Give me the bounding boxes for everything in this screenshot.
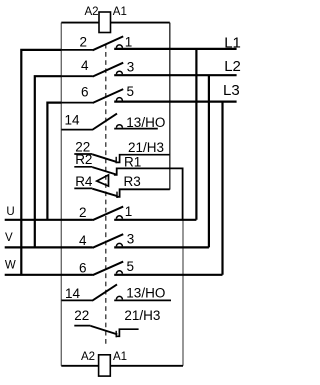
svg-text:2: 2 (80, 34, 88, 49)
fixed contact (116, 243, 122, 246)
moving contact blade (93, 36, 124, 50)
fixed contact (116, 271, 122, 274)
left terminal wire (61, 49, 92, 51)
svg-text:21/Н3: 21/Н3 (124, 308, 160, 323)
left terminal wire (61, 299, 92, 301)
contact row 4-3 (KM2 main pole 2) (93, 234, 209, 248)
wire: L1 drop to KM2 terminal 1 (195, 49, 197, 220)
right terminal wire (114, 74, 236, 76)
right terminal wire (114, 274, 222, 276)
svg-text:A2: A2 (85, 6, 99, 18)
fixed contact (116, 98, 122, 101)
wire to coil terminal A1 (111, 22, 170, 24)
contact stop bar (115, 331, 117, 338)
mechanical linkage dashed line (105, 44, 107, 345)
coil KM2 (bottom) (61, 355, 183, 376)
contact stop bar (115, 157, 117, 164)
aux NC contact 22-21/H3 (KM1) (74, 154, 170, 163)
svg-text:6: 6 (79, 260, 87, 275)
moving contact blade (93, 234, 124, 248)
wire: L3 drop to KM2 terminal 5 (221, 102, 223, 275)
mechanical interlock triangle (97, 175, 109, 186)
left terminal wire (61, 129, 92, 131)
right terminal hook wire (117, 155, 170, 163)
fixed contact (116, 296, 122, 299)
moving contact blade (92, 167, 116, 174)
contact row 2-1 (KM1 main pole 1) (61, 36, 236, 50)
wire: KM1 terminal 6 out to U feed (47, 103, 61, 220)
aux contact 14-13/NO (KM2) (61, 284, 171, 300)
wire to coil terminal A1 (KM2) (110, 365, 183, 367)
contact row 4-3 (KM1 main pole 2) (61, 63, 236, 77)
svg-text:R2: R2 (75, 152, 92, 167)
moving contact blade (92, 284, 117, 300)
svg-text:V: V (5, 232, 13, 244)
left terminal wire (61, 102, 92, 104)
left terminal wire stub (74, 187, 92, 189)
wire: KM1 terminal 2 out to W feed (21, 50, 61, 275)
fixed contact (116, 45, 122, 48)
right terminal wire (114, 128, 158, 130)
coil KM1 body (99, 12, 111, 33)
moving contact blade (92, 114, 117, 130)
contactor KM2 outline right edge (182, 220, 184, 365)
moving contact blade (93, 262, 124, 276)
right terminal wire (114, 219, 196, 221)
left terminal wire stub (74, 166, 92, 168)
svg-text:3: 3 (127, 232, 135, 247)
svg-text:4: 4 (79, 233, 87, 248)
svg-text:1: 1 (125, 204, 133, 219)
aux NC contact 22-21/H3 (KM2) (74, 326, 138, 338)
fixed contact (116, 125, 122, 128)
svg-text:R1: R1 (124, 154, 141, 169)
moving contact blade (93, 89, 124, 103)
svg-text:3: 3 (127, 60, 135, 75)
svg-text:L3: L3 (223, 82, 240, 99)
right terminal wire (114, 48, 236, 50)
svg-text:W: W (5, 260, 16, 272)
svg-text:A1: A1 (113, 351, 127, 363)
contact row 6-5 (KM1 main pole 3) (61, 89, 236, 103)
moving contact blade (91, 326, 118, 335)
wire: L2 drop to KM2 terminal 3 (208, 75, 210, 247)
right terminal hook wire (116, 329, 138, 336)
fixed contact (116, 216, 122, 219)
interlock contact R4-R3 (74, 188, 170, 198)
contactor KM1 outline right edge (169, 23, 171, 190)
wire to coil terminal A2 (KM2) (61, 365, 98, 367)
coil KM1 (top) (61, 12, 170, 33)
svg-text:14: 14 (65, 113, 81, 128)
svg-text:A1: A1 (113, 6, 127, 18)
svg-text:13/НО: 13/НО (126, 286, 165, 301)
right terminal hook wire (114, 168, 183, 219)
right terminal wire (114, 100, 236, 102)
right terminal wire (114, 246, 209, 248)
svg-text:21/Н3: 21/Н3 (128, 140, 164, 155)
svg-text:R3: R3 (124, 174, 141, 189)
wire: W feed line (5, 274, 93, 276)
wire to coil terminal A2 (61, 22, 99, 24)
svg-text:14: 14 (65, 286, 81, 301)
interlock contact R2-R1 (74, 167, 182, 220)
svg-text:1: 1 (125, 34, 133, 49)
moving contact blade (93, 63, 124, 77)
contact row 2-1 (KM2 main pole 1) (93, 207, 197, 221)
right terminal hook wire (116, 189, 169, 197)
svg-text:2: 2 (79, 205, 87, 220)
wire: U feed line (5, 219, 93, 221)
svg-text:6: 6 (81, 84, 89, 99)
svg-text:5: 5 (127, 84, 135, 99)
fixed contact (116, 71, 122, 74)
svg-text:L2: L2 (224, 58, 241, 75)
aux contact 14-13/NO (KM1) (61, 114, 158, 130)
svg-text:5: 5 (127, 259, 135, 274)
wire: V feed line (5, 246, 93, 248)
moving contact blade (93, 207, 124, 221)
contactor KM1 outline left edge (60, 23, 62, 366)
svg-text:13/НО: 13/НО (126, 115, 165, 130)
svg-text:R4: R4 (75, 174, 93, 189)
svg-text:22: 22 (74, 308, 89, 323)
wire: KM1 terminal 4 out to V feed (35, 76, 62, 247)
left terminal wire stub (74, 153, 92, 155)
right terminal wire (114, 299, 171, 301)
moving contact blade (92, 154, 116, 161)
svg-text:U: U (6, 206, 14, 218)
svg-text:A2: A2 (81, 351, 95, 363)
moving contact blade (92, 189, 117, 197)
contact stop bar (116, 192, 118, 198)
coil KM2 body (99, 355, 111, 376)
left terminal wire (61, 75, 92, 77)
svg-text:4: 4 (81, 58, 89, 73)
left terminal wire stub (74, 325, 90, 327)
contact row 6-5 (KM2 main pole 3) (93, 262, 223, 276)
svg-text:L1: L1 (224, 34, 241, 51)
